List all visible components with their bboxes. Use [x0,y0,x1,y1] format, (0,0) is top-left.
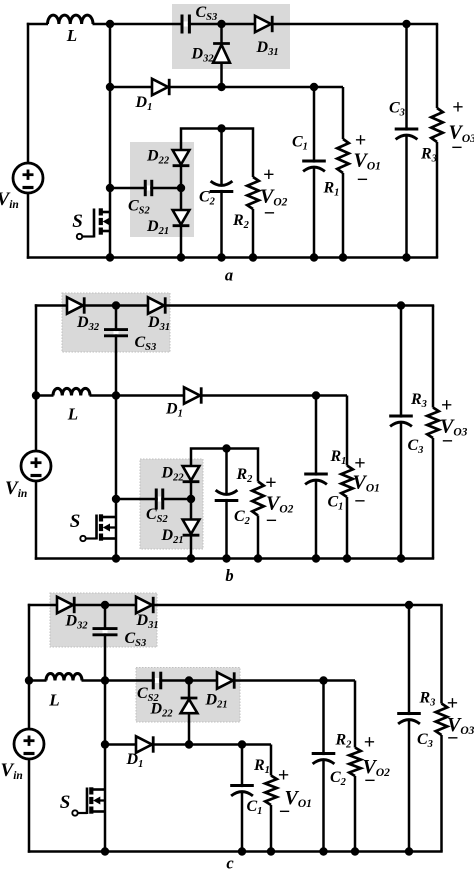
transistor switch S (circuit b) [80,499,116,559]
label VO3 minus (circuit b) [442,431,453,453]
node R2 bottom (circuit b) [254,554,262,562]
node C1 bottom (circuit a) [310,253,318,261]
label C1 (circuit b) [328,494,344,513]
wire top row (circuit a) [27,23,438,26]
label S (circuit c) [60,792,71,813]
node MOSFET bottom (circuit b) [112,554,120,562]
label D1 (circuit b) [165,401,183,420]
wire left rail lower (circuit b) [35,481,38,560]
svg-text:−: − [354,491,365,513]
svg-text:+: + [278,764,289,786]
svg-text:−: − [442,431,453,453]
wire bottom rail (circuit c) [28,850,443,853]
node D22 CS2 D21 junction (circuit b) [187,483,195,503]
inductor L (circuit b) [36,388,116,397]
label VO1 (circuit b) [353,471,380,494]
label C3 (circuit c) [417,731,433,750]
label Vin (circuit a) [0,189,19,211]
wire D21 to bottom (circuit a) [180,227,183,258]
label C3 (circuit b) [408,437,424,456]
label L (circuit a) [66,26,77,45]
label R2 (circuit c) [335,732,353,751]
label D1 (circuit c) [126,751,144,770]
capacitor CS3 (circuit b) [104,330,128,336]
svg-text:+: + [364,732,375,754]
label D21 (circuit b) [161,527,184,546]
label CS3 (circuit c) [125,630,147,649]
highlight box around D22 CS2 D21 (circuit b) [140,459,203,549]
label D31 (circuit a) [256,39,279,58]
node trunk bottom (circuit c) [101,847,109,855]
capacitor C2 (circuit a) [210,129,234,258]
node C1 top junction (circuit c) [238,740,246,748]
source Vin (circuit b) [21,451,51,481]
diode D21 (circuit b) [183,499,200,535]
wire CS2 D21 row (circuit c) [105,679,355,682]
svg-text:+: + [265,472,276,494]
label R3 (circuit c) [419,690,436,709]
node R1 bottom (circuit a) [339,253,347,261]
inductor L (circuit a) [48,15,94,25]
wire CS2 row (circuit b) [116,498,191,501]
label C1 (circuit a) [292,134,308,153]
label VO1 (circuit a) [354,150,381,173]
label CS2 (circuit a) [128,198,151,217]
diode D21 (circuit c) [217,672,234,688]
svg-text:S: S [60,792,71,813]
label R3 (circuit a) [420,146,437,165]
node D22-CS2-D21 junction (circuit a) [177,167,185,192]
label VO3 (circuit a) [449,122,474,145]
wire left rail lower (circuit c) [28,759,31,853]
label D32 (circuit c) [65,613,89,632]
node C3 bottom (circuit a) [402,253,410,261]
wire D1 row (circuit b) [116,394,347,397]
wire D21 to bottom (circuit b) [190,537,193,559]
node C2 top junction (circuit a) [217,124,225,132]
label b caption [225,566,233,585]
label VO2 plus (circuit c) [364,732,375,754]
label VO1 plus (circuit a) [355,130,366,152]
node R1 bottom (circuit c) [267,847,275,855]
diode D1 (circuit a) [152,79,169,95]
capacitor C2 (circuit b) [215,449,239,559]
label C2 (circuit c) [330,769,347,788]
svg-text:−: − [264,203,275,225]
source Vin (circuit c) [14,729,44,759]
label S (circuit a) [72,211,83,232]
node D21 bottom (circuit b) [187,554,195,562]
diode D32 (circuit c) [57,597,74,613]
capacitor CS2 (circuit c) [153,672,161,690]
label VO1 minus (circuit a) [357,169,368,191]
label VO3 plus (circuit c) [447,693,458,715]
wire left rail (circuit a) [27,23,30,163]
capacitor CS3 (circuit c) [93,629,118,635]
wire CS2 row (circuit a) [110,187,181,190]
label L (circuit b) [67,405,78,424]
label Vin (circuit c) [1,760,23,782]
node C2 bottom (circuit c) [319,847,327,855]
wire trunk (circuit b) [115,306,118,500]
label R2 (circuit a) [232,212,250,231]
node top C3 junction (circuit a) [402,20,410,28]
node top C3 junction (circuit c) [405,601,413,609]
node C3 bottom (circuit b) [397,554,405,562]
capacitor CS2 (circuit b) [156,489,163,510]
node top C3 junction (circuit b) [397,301,405,309]
wire D22 branch (circuit c) [188,681,191,745]
svg-text:L: L [48,691,59,710]
label VO3 minus (circuit c) [447,728,458,750]
label VO1 plus (circuit c) [278,764,289,786]
resistor R1 (circuit c) [265,745,277,852]
svg-text:L: L [66,26,77,45]
resistor R2 (circuit b) [252,482,264,559]
transistor switch S (circuit c) [72,787,105,815]
diode D1 (circuit b) [184,387,201,403]
label D31 (circuit b) [147,314,170,333]
label D22 (circuit a) [146,148,170,167]
node C2 bottom (circuit b) [222,554,230,562]
label VO2 (circuit b) [266,493,294,516]
node C1 top junction (circuit b) [312,391,320,399]
wire bottom rail (circuit b) [35,557,434,560]
label Vin (circuit b) [5,478,27,500]
diode D32 (circuit a) [213,44,230,63]
label VO2 minus (circuit b) [266,510,277,532]
svg-text:+: + [447,693,458,715]
node C2 top junction (circuit c) [319,676,327,684]
label C2 (circuit a) [199,189,216,208]
wire top row (circuit b) [35,304,434,307]
label VO2 (circuit a) [260,186,288,209]
highlight box around D32 D31 CS3 (circuit b) [62,293,170,352]
svg-text:b: b [225,566,233,585]
resistor R2 (circuit a) [247,177,259,258]
diode D22 (circuit b) [183,466,200,482]
label VO2 plus (circuit a) [263,164,274,186]
diode D1 (circuit c) [136,736,153,752]
label a caption [225,266,233,285]
label CS3 (circuit b) [135,334,157,353]
label D22 (circuit c) [150,701,174,720]
node trunk CS2 junction (circuit b) [112,495,120,503]
svg-text:+: + [263,164,274,186]
node CS3-D31-D32 junction (circuit a) [217,20,225,28]
label R1 (circuit a) [323,180,340,199]
label CS3 (circuit a) [196,4,218,23]
wire top row (circuit c) [28,604,443,607]
label R2 (circuit b) [236,466,254,485]
diode D31 (circuit a) [255,16,272,32]
node D32-D1 junction (circuit a) [217,83,225,91]
label VO3 plus (circuit a) [452,97,463,119]
wire trunk (circuit c) [104,605,107,852]
node C1 bottom (circuit b) [312,554,320,562]
transistor switch S (circuit a) [77,188,110,258]
node C1 bottom (circuit c) [238,847,246,855]
node D21 bottom (circuit a) [177,253,185,261]
node top trunk junction (circuit c) [101,601,109,609]
label VO1 (circuit c) [285,787,312,810]
capacitor C1 (circuit a) [302,87,326,258]
label D1 (circuit a) [135,94,153,113]
resistor R3 right rail (circuit b) [427,306,439,559]
label c caption [226,854,234,873]
label C2 (circuit b) [234,508,251,527]
label VO2 minus (circuit c) [364,770,375,792]
label VO1 minus (circuit b) [354,491,365,513]
label C1 (circuit c) [247,798,263,817]
svg-text:−: − [266,510,277,532]
label VO1 minus (circuit c) [279,801,290,823]
label CS2 (circuit b) [146,506,169,525]
node trunk top (circuit a) [106,20,114,28]
node trunk inductor cross (circuit c) [101,676,109,684]
wire left rail (circuit b) [35,304,38,451]
svg-text:+: + [441,395,452,417]
diode D31 (circuit c) [136,597,153,613]
label D21 (circuit c) [205,692,228,711]
svg-text:L: L [67,405,78,424]
capacitor C1 (circuit b) [304,396,328,559]
svg-text:−: − [364,770,375,792]
label L (circuit c) [48,691,59,710]
svg-text:−: − [279,801,290,823]
capacitor C3 (circuit b) [389,306,413,559]
node D22 D1 junction (circuit c) [185,740,193,748]
label VO1 plus (circuit b) [354,453,365,475]
label VO3 plus (circuit b) [441,395,452,417]
label D32 (circuit a) [191,46,215,65]
label D32 (circuit b) [76,314,100,333]
label R1 (circuit c) [253,757,270,776]
label R1 (circuit b) [330,448,347,467]
diode D32 (circuit b) [67,297,84,313]
node R1 bottom (circuit b) [343,554,351,562]
highlight box around C_S3 D31 D32 (circuit a) [172,4,290,69]
capacitor CS3 (circuit a) [182,15,189,34]
resistor R3 right rail (circuit a) [431,24,443,258]
node trunk-D1 junction (circuit a) [106,83,114,91]
svg-text:S: S [72,211,83,232]
wire left rail lower (circuit a) [27,193,30,259]
capacitor C3 (circuit a) [395,24,419,258]
node left rail inductor junction (circuit b) [32,391,40,399]
label VO3 (circuit c) [447,714,474,737]
label VO2 minus (circuit a) [264,203,275,225]
node C2 top junction (circuit b) [222,444,230,452]
node R2 bottom (circuit a) [249,253,257,261]
wire trunk (circuit a) [109,24,112,188]
svg-text:−: − [447,728,458,750]
svg-text:a: a [225,266,233,285]
capacitor C2 (circuit c) [312,681,336,852]
resistor R2 (circuit c) [349,681,361,852]
capacitor CS2 (circuit a) [145,180,152,196]
wire D1 row (circuit c) [105,743,271,746]
svg-text:−: − [451,137,462,159]
node trunk inductor cross (circuit b) [112,391,120,399]
node trunk D1 junction (circuit c) [101,740,109,748]
node CS2 D22 D21 junction (circuit c) [185,676,193,684]
label C3 (circuit a) [389,100,405,119]
label VO2 (circuit c) [363,756,391,779]
node C1 top junction (circuit a) [310,83,318,91]
source Vin (circuit a) [13,163,43,193]
wire bottom rail (circuit a) [27,256,438,259]
highlight box around D22 C_S2 D21 (circuit a) [130,142,194,237]
svg-text:+: + [452,97,463,119]
label R3 (circuit b) [410,391,427,410]
diode D22 (circuit a) [173,150,190,166]
svg-text:+: + [355,130,366,152]
label D31 (circuit c) [136,612,159,631]
svg-text:−: − [357,169,368,191]
resistor R1 (circuit a) [337,87,349,258]
wire D32 branch (circuit a) [220,24,223,87]
diode D22 (circuit c) [181,698,198,713]
diode D21 (circuit a) [173,188,190,226]
label D22 (circuit b) [161,465,185,484]
wire D22 branch top corner (circuit b) [191,449,258,482]
node C3 bottom (circuit c) [405,847,413,855]
svg-text:c: c [226,854,234,873]
label VO3 (circuit b) [440,416,468,439]
wire D1 row (circuit a) [110,86,343,89]
node R2 bottom (circuit c) [351,847,359,855]
resistor R1 (circuit b) [341,396,353,559]
node C2 bottom (circuit a) [217,253,225,261]
wire left rail (circuit c) [28,604,31,729]
capacitor C3 (circuit c) [397,605,421,852]
node trunk-CS2 junction (circuit a) [106,184,114,192]
highlight box around CS2 D22 D21 (circuit c) [136,668,240,723]
label VO3 minus (circuit a) [451,137,462,159]
node MOSFET source bottom (circuit a) [106,253,114,261]
label S (circuit b) [70,511,81,532]
highlight box around D32 D31 CS3 (circuit c) [50,593,157,647]
svg-text:S: S [70,511,81,532]
node top trunk junction (circuit b) [112,301,120,309]
wire D22 branch top corner (circuit a) [181,129,253,178]
diode D31 (circuit b) [148,297,165,313]
label CS2 (circuit c) [137,685,160,704]
resistor R3 right rail (circuit c) [436,605,448,852]
inductor L (circuit c) [29,674,105,682]
label D21 (circuit a) [146,218,169,237]
node left rail inductor junction (circuit c) [25,676,33,684]
capacitor C1 (circuit c) [230,745,254,852]
label VO2 plus (circuit b) [265,472,276,494]
